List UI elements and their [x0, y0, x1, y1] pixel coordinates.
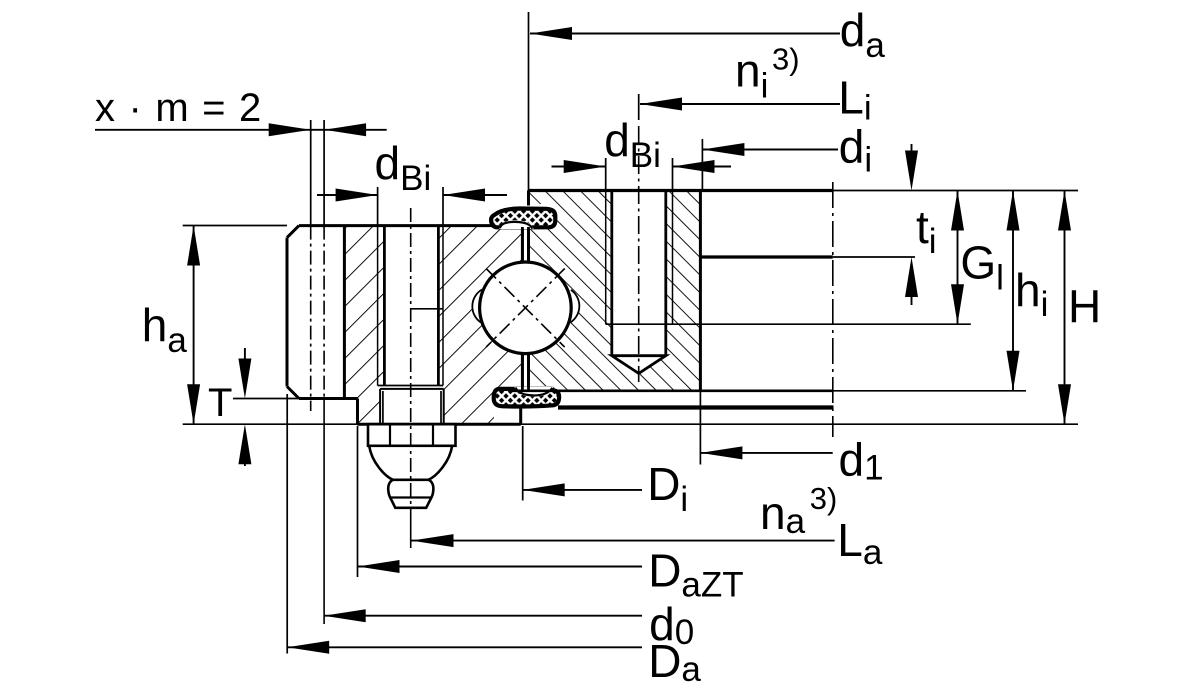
inner ring bore centerline: [832, 182, 834, 437]
dimension T: [208, 348, 251, 466]
outer ring gear tooth outline: [287, 226, 358, 399]
outer ring bolt hole d_Bi: [378, 226, 443, 386]
dimension d_i: [702, 121, 872, 191]
svg-text:T: T: [208, 381, 232, 425]
dimension d_0: [324, 598, 694, 652]
dimension D_aZT: [358, 426, 744, 605]
svg-text:3): 3): [772, 42, 800, 77]
inner ring threaded hole d_Bi: [606, 191, 673, 374]
outer ring section hatching: [344, 226, 522, 425]
ball: [480, 262, 572, 354]
dimension L_i with note n_i 3): [639, 42, 872, 128]
seal gap lip lines upper: [522, 227, 528, 264]
seal gap lip lines lower: [522, 353, 528, 392]
dimension t_i: [905, 144, 937, 305]
dimension d_Bi outer ring: [317, 137, 507, 226]
ball centre cross: [486, 269, 565, 348]
raceway shoulder arcs: [472, 290, 579, 323]
svg-text:H: H: [1068, 280, 1101, 332]
grease nipple thread shank: [380, 389, 444, 424]
outer ring outline: [299, 226, 522, 425]
svg-text:x · m = 2: x · m = 2: [95, 86, 263, 130]
support band under inner ring: [558, 405, 834, 409]
inner ring section hatching: [529, 191, 701, 391]
bottom seal: [494, 387, 560, 407]
svg-text:3): 3): [810, 481, 838, 516]
grease nipple hex nut: [368, 424, 456, 446]
dimension D_a: [287, 394, 701, 689]
grease nipple head: [388, 480, 433, 508]
dimension D_i: [523, 426, 689, 519]
dimension h_i: [1007, 191, 1049, 391]
dimension d_a: [529, 4, 886, 190]
dimension G_l: [951, 191, 1004, 325]
threaded hole centerline: [638, 126, 640, 382]
top seal: [491, 209, 555, 230]
dimension d_Bi inner ring: [552, 114, 732, 191]
grease nipple centerline: [410, 208, 412, 548]
gear pitch line left: [310, 120, 312, 411]
dimension x·m=2: [95, 86, 387, 136]
inner ring outline: [529, 191, 833, 391]
dimension h_a: [142, 226, 200, 425]
dimension H: [1058, 191, 1101, 425]
dimension d_1: [700, 391, 883, 488]
level extension lines: [183, 191, 1078, 425]
gear pitch line right / d_0 extension: [323, 120, 325, 624]
dimension L_a with note n_a 3): [412, 481, 883, 572]
grease nipple neck: [369, 446, 452, 480]
